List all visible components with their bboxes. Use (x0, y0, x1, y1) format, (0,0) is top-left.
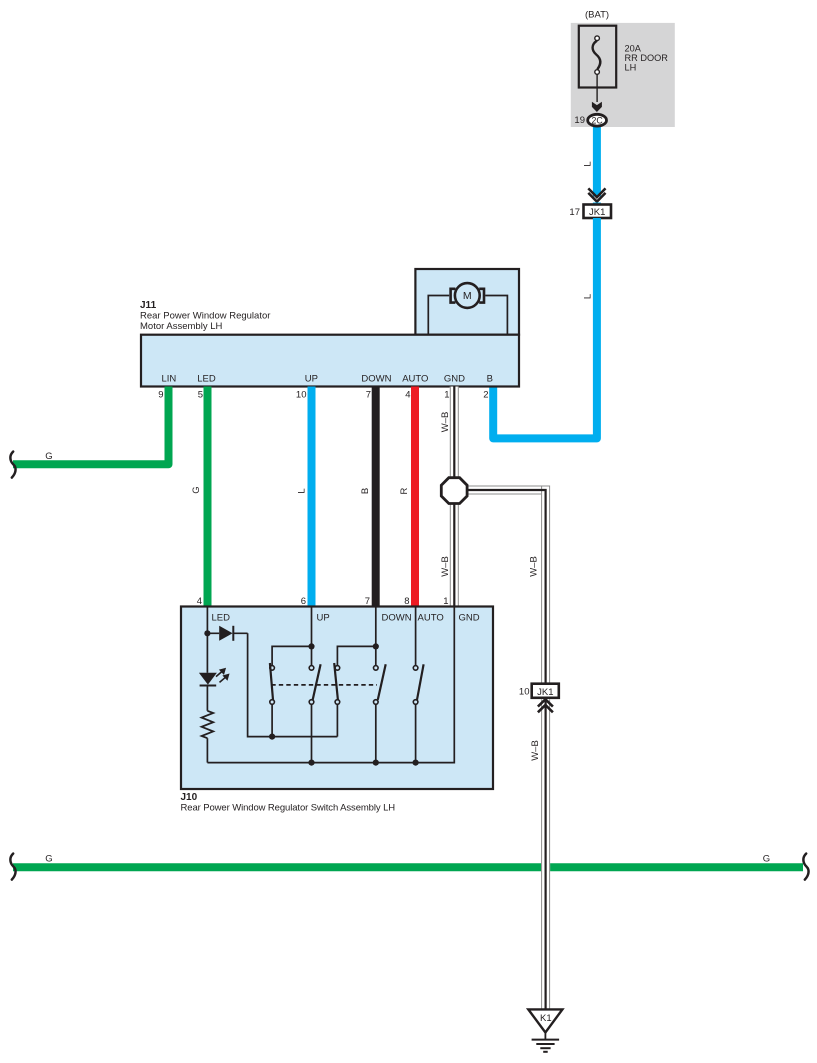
svg-text:B: B (360, 488, 371, 494)
junction dot bus S4 (373, 760, 379, 766)
switch S5 blade (417, 664, 424, 700)
junction dot DOWN link (373, 643, 379, 649)
svg-text:B: B (487, 374, 493, 385)
wire stub above JK1 (593, 203, 601, 206)
wire L (cyan) 2C to splice (593, 124, 601, 197)
splice octagon junction (441, 478, 467, 504)
svg-text:GND: GND (459, 613, 480, 624)
svg-text:LIN: LIN (162, 374, 177, 385)
wire color label L (583, 294, 594, 299)
svg-text:G: G (763, 854, 770, 865)
wire W-B J11 pin 1 GND to J10 pin 1 (450, 387, 459, 607)
wire color label W-B (529, 556, 540, 577)
svg-text:AUTO: AUTO (402, 374, 428, 385)
mechanical link dashed (271, 684, 377, 686)
svg-text:10: 10 (519, 687, 530, 698)
continuation squiggle right bus (803, 854, 808, 880)
svg-text:G: G (45, 451, 52, 462)
motor sub-box of J11 (415, 269, 519, 335)
svg-text:4: 4 (197, 596, 202, 607)
J10 internal link UP to switch S1 (272, 646, 311, 665)
J10 internal wire resistor to bus (206, 738, 208, 762)
wire L (cyan) JK1 to J11 pin B (493, 218, 597, 438)
switch S4 blade (378, 664, 386, 700)
svg-text:DOWN: DOWN (361, 374, 391, 385)
splice chevrons into JK1 (588, 188, 605, 201)
svg-text:19: 19 (574, 115, 585, 126)
wire W-B JK1 down to ground K1 (541, 699, 550, 1009)
svg-text:G: G (45, 854, 52, 865)
switch S3 blade (334, 663, 338, 700)
J10 internal wire pin 4 to node A (206, 608, 208, 634)
wire R (red) J11 pin 4 to J10 pin 8 (411, 387, 419, 607)
svg-text:DOWN: DOWN (382, 613, 412, 624)
svg-text:RR DOOR: RR DOOR (625, 53, 669, 63)
J10 internal wire node A to LED (206, 633, 208, 673)
svg-text:(BAT): (BAT) (585, 10, 609, 21)
svg-text:6: 6 (301, 596, 306, 607)
svg-text:GND: GND (444, 374, 465, 385)
J10 internal wire node A to diode (207, 632, 247, 634)
svg-text:UP: UP (317, 613, 330, 624)
wire color label L (583, 161, 594, 166)
fuse value label 20A RR DOOR LH (625, 43, 669, 72)
svg-text:9: 9 (158, 390, 163, 401)
J10 internal ground bus to pin 1 (207, 608, 454, 763)
green bus wire G across page (13, 863, 803, 871)
svg-text:W–B: W–B (529, 556, 540, 577)
motor loop wire right (485, 296, 507, 335)
svg-text:W–B: W–B (530, 740, 541, 761)
wire L (cyan) J11 pin 10 to J10 pin 6 (308, 387, 316, 607)
svg-text:Rear Power Window Regulator: Rear Power Window Regulator (140, 311, 270, 322)
continuation squiggle left bus (10, 854, 15, 880)
junction dot bus S5 (413, 760, 419, 766)
junction connector JK1 (bottom) (532, 684, 559, 698)
junction dot S1 bottom (269, 734, 275, 740)
svg-text:LH: LH (625, 62, 637, 72)
junction dot bus S2 (308, 760, 314, 766)
motor M (455, 283, 480, 308)
svg-text:JK1: JK1 (537, 687, 553, 698)
resistor R1 (202, 711, 214, 738)
J10 switch S5 lower stub (415, 704, 417, 762)
svg-text:G: G (191, 486, 202, 493)
wire color label W-B (440, 412, 451, 433)
J10 connector box (181, 607, 493, 790)
J10 internal wire pin 6 UP (311, 608, 313, 666)
switch S1 blade (270, 663, 273, 700)
svg-text:R: R (399, 487, 410, 494)
svg-text:5: 5 (198, 390, 203, 401)
svg-text:W–B: W–B (440, 412, 451, 433)
svg-text:20A: 20A (625, 43, 642, 53)
diode D1 (219, 626, 233, 641)
splice chevrons out of JK1 (538, 699, 553, 712)
J11 connector box (141, 335, 519, 387)
svg-text:10: 10 (296, 390, 307, 401)
motor brush right (479, 289, 484, 303)
J10 internal wire pin 7 DOWN (375, 608, 377, 666)
switch contact circles (270, 666, 418, 705)
svg-text:1: 1 (443, 596, 448, 607)
battery feed gray block (571, 23, 675, 127)
wire color label W-B (530, 740, 541, 761)
motor loop wire left (428, 296, 449, 335)
continuation squiggle left LIN (10, 452, 15, 478)
svg-text:UP: UP (305, 374, 318, 385)
fuse 20A RR DOOR LH element (593, 36, 601, 74)
wire B (black) J11 pin 7 to J10 pin 7 (372, 387, 380, 607)
wire color label R (399, 487, 410, 494)
svg-text:L: L (583, 294, 594, 299)
LED emission arrows (216, 669, 228, 683)
J10 switch S3 lower stub (336, 704, 338, 736)
svg-text:J10: J10 (181, 792, 198, 803)
J10 internal wire diode down to switch link (248, 633, 338, 736)
svg-text:17: 17 (569, 207, 580, 218)
svg-text:4: 4 (405, 390, 410, 401)
svg-text:AUTO: AUTO (418, 613, 444, 624)
wire fuse to connector 2C (596, 75, 598, 103)
J10 internal link DOWN to switch S3 (337, 646, 375, 665)
svg-text:JK1: JK1 (589, 207, 605, 218)
svg-text:L: L (297, 488, 308, 493)
svg-text:LED: LED (197, 374, 216, 385)
J10 internal wire LED to resistor (206, 686, 208, 711)
connector 2C oval (588, 114, 607, 126)
ground point K1 triangle (528, 1009, 562, 1032)
svg-text:1: 1 (444, 390, 449, 401)
J10 internal wire pin 8 AUTO (415, 608, 417, 666)
J10 switch S2 lower stub (311, 704, 313, 762)
svg-text:K1: K1 (540, 1013, 552, 1024)
motor brush left (451, 289, 456, 303)
svg-text:2C: 2C (591, 116, 603, 126)
svg-text:Motor Assembly LH: Motor Assembly LH (140, 321, 222, 332)
junction connector JK1 (top) (584, 205, 612, 219)
svg-text:J11: J11 (140, 300, 157, 311)
LED indicator (199, 673, 217, 686)
wire color label B (360, 488, 371, 494)
svg-text:LED: LED (212, 613, 231, 624)
wire W-B branch from splice to JK1 (466, 486, 550, 684)
wire color label G (191, 486, 202, 493)
J10 switch S4 lower stub (375, 704, 377, 762)
svg-text:Rear Power Window Regulator Sw: Rear Power Window Regulator Switch Assem… (181, 802, 396, 813)
switch S2 blade (313, 664, 321, 700)
svg-text:W–B: W–B (440, 556, 451, 577)
ground symbol (532, 1033, 560, 1052)
svg-text:2: 2 (483, 390, 488, 401)
svg-text:M: M (463, 290, 472, 302)
arrow into connector 2C (592, 102, 602, 112)
wire G (green) J11 pin 9 LIN to left edge (13, 387, 169, 465)
wire G (green) J11 pin 5 to J10 pin 4 (204, 387, 212, 607)
svg-text:7: 7 (366, 390, 371, 401)
J10 switch S1 lower stub (271, 704, 273, 736)
svg-text:L: L (583, 161, 594, 166)
wire color label L (297, 488, 308, 493)
svg-text:7: 7 (365, 596, 370, 607)
junction dot UP link (308, 643, 314, 649)
fuse box outline (579, 26, 616, 88)
junction node A dot (204, 630, 210, 636)
svg-text:8: 8 (404, 596, 409, 607)
wire color label W-B (440, 556, 451, 577)
